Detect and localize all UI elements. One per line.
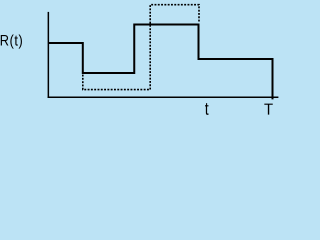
y-axis (47, 12, 49, 98)
dotted step curve (83, 5, 199, 90)
label R(t) (1, 34, 22, 48)
solid step curve R(t) (49, 25, 273, 100)
label T (264, 104, 272, 115)
label t (205, 103, 209, 115)
x-axis (48, 96, 279, 98)
